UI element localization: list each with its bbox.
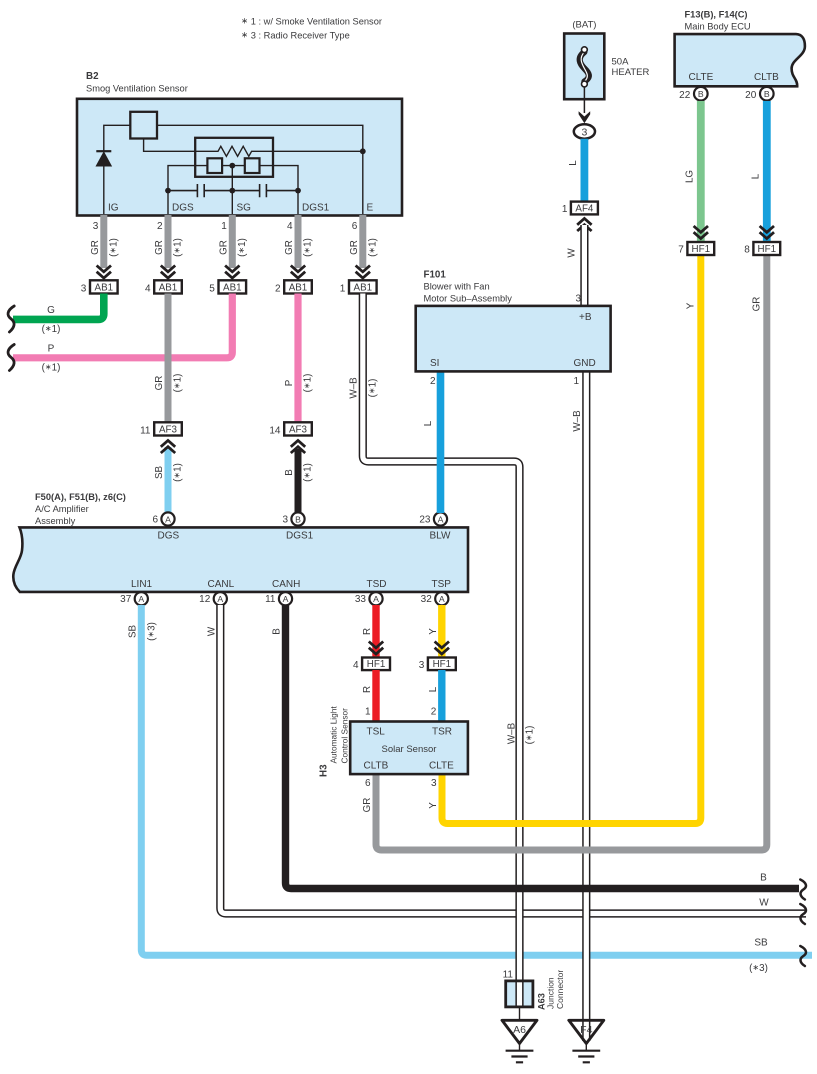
svg-text:11: 11 [140, 425, 151, 436]
svg-text:DGS: DGS [172, 203, 194, 214]
svg-text:GR: GR [154, 376, 165, 391]
svg-text:GR: GR [349, 240, 360, 255]
arrow into 3 HF1 [435, 642, 449, 648]
wire GR pin 4 of B2 [295, 215, 302, 268]
wire P from connector 2 AB1 to 14 AF3 [294, 294, 301, 424]
svg-text:1: 1 [573, 376, 579, 387]
arrow into AB1 [291, 266, 305, 272]
svg-text:Y: Y [685, 302, 696, 309]
svg-text:23: 23 [419, 515, 431, 526]
pin 3 B of A/C amplifier [291, 512, 304, 525]
pin 12 A of A/C amplifier [214, 592, 227, 605]
svg-text:SB: SB [127, 625, 138, 639]
svg-text:Y: Y [428, 628, 439, 635]
wire SB from pin 37 LIN1 to right edge [141, 605, 812, 955]
svg-text:G: G [47, 305, 55, 316]
connector 2 AB1 [284, 280, 312, 293]
svg-text:HF1: HF1 [433, 659, 452, 670]
svg-text:AB1: AB1 [354, 283, 373, 294]
node SG junction [229, 188, 235, 194]
svg-text:6: 6 [352, 221, 358, 232]
svg-text:AF3: AF3 [159, 425, 178, 436]
connector 1 AF4 [571, 202, 598, 215]
svg-text:E: E [367, 203, 374, 214]
svg-text:AF3: AF3 [289, 425, 308, 436]
svg-text:1: 1 [221, 221, 227, 232]
svg-text:3: 3 [419, 660, 425, 671]
svg-text:GR: GR [218, 240, 229, 255]
wire P pink to left [13, 294, 232, 358]
svg-text:DGS: DGS [158, 531, 180, 542]
arrow into 8 HF1 [760, 226, 774, 232]
wire R from 4 HF1 to solar sensor pin 1 TSL [372, 670, 379, 721]
svg-text:B: B [284, 469, 295, 476]
svg-text:32: 32 [421, 594, 433, 605]
svg-text:CLTE: CLTE [429, 760, 454, 771]
svg-text:37: 37 [120, 594, 132, 605]
fuse 50A HEATER symbol [580, 52, 589, 82]
arrow into 4 HF1 [369, 642, 383, 648]
svg-text:3: 3 [93, 221, 99, 232]
continuation squiggle SB [800, 946, 806, 966]
svg-text:6: 6 [152, 515, 158, 526]
svg-text:AB1: AB1 [223, 283, 242, 294]
svg-text:(∗1): (∗1) [525, 726, 536, 745]
svg-text:+B: +B [579, 312, 592, 323]
svg-text:TSR: TSR [432, 727, 452, 738]
pin 33 A of A/C amplifier [369, 592, 382, 605]
svg-text:11: 11 [265, 594, 276, 605]
svg-text:CLTB: CLTB [754, 72, 779, 83]
wire from A63 to ground A6 [519, 1007, 521, 1021]
connector 3 AB1 [90, 280, 118, 293]
pin 11 A of A/C amplifier [279, 592, 292, 605]
connector 3 HF1 [428, 658, 456, 671]
component B2 internal square U [130, 112, 157, 139]
wire W from pin 12 CANL to right edge [220, 605, 806, 914]
svg-text:H3: H3 [319, 764, 330, 777]
svg-text:GND: GND [574, 358, 596, 369]
svg-text:B: B [272, 628, 283, 635]
wire W-B from F101 GND to ground F4 [582, 372, 590, 1042]
component A/C amplifier box [13, 527, 468, 592]
component Main Body ECU box [675, 34, 805, 86]
svg-text:(∗1): (∗1) [303, 374, 314, 393]
pin 37 A of A/C amplifier [135, 592, 148, 605]
svg-text:BLW: BLW [430, 531, 451, 542]
svg-text:F13(B), F14(C): F13(B), F14(C) [685, 10, 748, 20]
svg-text:HF1: HF1 [758, 244, 777, 255]
svg-text:12: 12 [199, 594, 211, 605]
svg-text:A: A [165, 514, 171, 524]
svg-text:Y: Y [428, 802, 439, 809]
pin 20 B of Main Body ECU [760, 87, 774, 101]
svg-text:SG: SG [237, 203, 252, 214]
node 3 circle [574, 124, 595, 138]
wire from fuse to node 3 [583, 87, 585, 113]
svg-text:4: 4 [145, 283, 151, 294]
pin 6 A of A/C amplifier [161, 512, 174, 525]
svg-text:IG: IG [108, 203, 119, 214]
svg-text:2: 2 [431, 707, 437, 718]
svg-text:W: W [759, 898, 769, 909]
connector 5 AB1 [219, 280, 247, 293]
connector 1 AB1 [349, 280, 377, 293]
wire B from pin 11 CANH to right edge [286, 605, 800, 889]
svg-text:CLTE: CLTE [689, 72, 714, 83]
svg-text:B: B [760, 873, 767, 884]
svg-text:P: P [284, 379, 295, 386]
svg-text:TSD: TSD [367, 579, 387, 590]
svg-text:1: 1 [562, 204, 568, 215]
connector 14 AF3 [284, 422, 312, 435]
svg-text:7: 7 [678, 245, 684, 256]
svg-text:2: 2 [157, 221, 163, 232]
svg-text:DGS1: DGS1 [286, 531, 314, 542]
node SG junction upper [229, 163, 235, 169]
svg-text:B2: B2 [86, 71, 99, 82]
continuation squiggle P [8, 345, 14, 371]
capacitor C2 [260, 184, 298, 197]
connector 4 HF1 [362, 658, 390, 671]
wire L from CLTB to 8 HF1 [763, 101, 771, 243]
svg-text:Blower with Fan: Blower with Fan [424, 282, 490, 292]
svg-text:33: 33 [355, 594, 367, 605]
svg-text:DGS1: DGS1 [302, 203, 330, 214]
svg-text:(∗1): (∗1) [42, 324, 61, 335]
continuation squiggle G [8, 306, 14, 332]
wire GR from connector 4 AB1 to 11 AF3 [165, 294, 172, 424]
arrow out of 11 AF3 [161, 447, 175, 453]
continuation squiggle B [800, 880, 806, 900]
svg-text:1: 1 [340, 283, 346, 294]
svg-text:∗ 3 : Radio Receiver Type: ∗ 3 : Radio Receiver Type [241, 30, 350, 41]
svg-text:A: A [138, 594, 144, 604]
svg-text:(∗1): (∗1) [367, 379, 378, 398]
svg-text:TSL: TSL [367, 727, 386, 738]
svg-text:TSP: TSP [432, 579, 452, 590]
svg-text:8: 8 [744, 245, 750, 256]
component B2 box [77, 99, 402, 216]
svg-text:A: A [373, 594, 379, 604]
svg-text:AB1: AB1 [159, 283, 178, 294]
arrow into AB1 [225, 266, 239, 272]
svg-text:F4: F4 [580, 1024, 592, 1036]
svg-text:50A: 50A [612, 57, 630, 68]
svg-text:GR: GR [751, 297, 762, 312]
node DGS1 junction [295, 188, 301, 194]
connector 11 AF3 [154, 422, 182, 435]
wire L from F101 SI to A/C amplifier pin 23 [437, 372, 445, 514]
svg-text:Junction: Junction [546, 977, 556, 1009]
component sensing element box [195, 138, 273, 177]
svg-text:P: P [48, 344, 55, 355]
connector 4 AB1 [154, 280, 182, 293]
svg-text:(∗1): (∗1) [237, 238, 248, 257]
svg-text:3: 3 [431, 778, 437, 789]
svg-text:A: A [283, 594, 289, 604]
ground F4 [569, 1020, 604, 1043]
svg-text:CANL: CANL [208, 579, 235, 590]
arrow into AB1 [97, 266, 111, 272]
arrow into AB1 [356, 266, 370, 272]
svg-text:(∗1): (∗1) [173, 374, 184, 393]
svg-text:R: R [362, 686, 373, 693]
wire L from node 3 to 1 AF4 [581, 139, 589, 202]
wire R from pin 33 TSD to 4 HF1 [372, 605, 379, 658]
svg-text:(∗1): (∗1) [367, 238, 378, 257]
svg-text:CLTB: CLTB [364, 760, 389, 771]
svg-text:A: A [438, 514, 444, 524]
node E junction [360, 148, 366, 154]
svg-text:SB: SB [154, 466, 165, 480]
svg-text:Connector: Connector [555, 970, 565, 1009]
svg-text:(∗1): (∗1) [173, 238, 184, 257]
svg-text:AB1: AB1 [289, 283, 308, 294]
svg-text:(∗1): (∗1) [303, 238, 314, 257]
wire W-B from connector 1 AB1 to junction connector A63 [363, 294, 520, 983]
svg-text:(∗1): (∗1) [42, 363, 61, 374]
wire B2 top rail [104, 125, 131, 151]
arrow out of 1 AF4 [577, 225, 591, 231]
svg-text:L: L [423, 420, 434, 426]
svg-text:L: L [428, 686, 439, 692]
svg-text:A: A [439, 594, 445, 604]
wire G green to left [13, 294, 104, 320]
component strain gauge SQ1 [207, 158, 222, 173]
svg-text:W: W [566, 248, 577, 258]
svg-text:Solar Sensor: Solar Sensor [382, 744, 437, 755]
pin 22 B of Main Body ECU [694, 87, 708, 101]
svg-text:2: 2 [275, 283, 281, 294]
svg-text:22: 22 [679, 90, 691, 101]
svg-text:6: 6 [365, 778, 371, 789]
pin 23 A of A/C amplifier [434, 512, 447, 525]
wire GR pin 1 of B2 [229, 215, 236, 268]
capacitor C1 [168, 184, 260, 197]
svg-text:LIN1: LIN1 [131, 579, 153, 590]
wire SB from 11 AF3 to A/C amplifier pin 6 [165, 447, 172, 513]
wire gauge row [168, 166, 207, 191]
svg-text:AB1: AB1 [95, 283, 114, 294]
svg-text:20: 20 [745, 90, 757, 101]
svg-text:GR: GR [154, 240, 165, 255]
component strain gauge SQ2 [245, 158, 260, 173]
diode D1 [103, 166, 105, 214]
svg-text:(∗1): (∗1) [108, 238, 119, 257]
svg-text:W–B: W–B [572, 410, 583, 432]
continuation squiggle W [800, 904, 806, 924]
svg-text:2: 2 [430, 376, 436, 387]
arrow into node 3 [579, 111, 591, 123]
svg-text:GR: GR [284, 240, 295, 255]
svg-text:14: 14 [269, 425, 281, 436]
svg-text:3: 3 [575, 294, 581, 305]
svg-text:L: L [750, 173, 761, 179]
svg-text:F50(A), F51(B), z6(C): F50(A), F51(B), z6(C) [35, 492, 126, 502]
svg-text:Assembly: Assembly [35, 516, 76, 526]
svg-text:W–B: W–B [348, 377, 359, 399]
svg-text:(∗1): (∗1) [173, 463, 184, 482]
svg-text:B: B [698, 89, 704, 99]
wire W from 1 AF4 to F101 +B [580, 225, 588, 307]
connector A63 junction connector [506, 981, 533, 1007]
svg-text:GR: GR [90, 240, 101, 255]
arrow into AB1 [161, 266, 175, 272]
svg-text:R: R [362, 628, 373, 635]
svg-text:1: 1 [365, 707, 371, 718]
svg-text:W: W [206, 626, 217, 636]
wire Y from solar sensor CLTE to 7 HF1 [442, 256, 701, 824]
wire B2 resistor rail [144, 139, 197, 152]
svg-text:(BAT): (BAT) [572, 20, 596, 31]
component F101 box [416, 306, 611, 372]
wire GR from solar sensor CLTB to 8 HF1 [376, 256, 767, 851]
ground A6 [502, 1020, 537, 1043]
connector 7 HF1 [687, 242, 714, 255]
svg-text:4: 4 [287, 221, 293, 232]
svg-text:W–B: W–B [507, 722, 518, 744]
svg-text:A: A [217, 594, 223, 604]
svg-text:HEATER: HEATER [612, 67, 650, 78]
svg-text:11: 11 [503, 970, 514, 981]
component battery box [564, 34, 604, 100]
wire Y from pin 32 TSP to 3 HF1 [438, 605, 445, 658]
svg-text:Main Body ECU: Main Body ECU [685, 22, 751, 32]
svg-text:3: 3 [81, 283, 87, 294]
svg-text:CANH: CANH [272, 579, 300, 590]
svg-text:Smog Ventilation Sensor: Smog Ventilation Sensor [86, 84, 188, 94]
svg-text:HF1: HF1 [367, 659, 386, 670]
svg-text:Control Sensor: Control Sensor [340, 708, 350, 764]
arrow out of 14 AF3 [291, 447, 305, 453]
svg-text:A6: A6 [513, 1024, 526, 1036]
component H3 solar sensor box [350, 722, 468, 775]
svg-text:3: 3 [282, 515, 288, 526]
svg-text:(∗1): (∗1) [303, 463, 314, 482]
svg-text:A/C Amplifier: A/C Amplifier [35, 504, 89, 514]
svg-text:5: 5 [209, 283, 215, 294]
svg-text:B: B [295, 514, 301, 524]
arrow into 7 HF1 [694, 226, 708, 232]
svg-text:3: 3 [581, 126, 587, 138]
wire L from 3 HF1 to solar sensor pin 2 TSR [438, 670, 445, 721]
svg-text:∗ 1 : w/ Smoke Ventilation Sen: ∗ 1 : w/ Smoke Ventilation Sensor [241, 16, 382, 27]
wire GR pin 3 of B2 [100, 215, 107, 268]
svg-text:F101: F101 [424, 270, 447, 281]
wire B from 14 AF3 to A/C amplifier pin 3 [295, 449, 302, 513]
svg-text:Automatic Light: Automatic Light [329, 706, 339, 764]
svg-text:4: 4 [353, 660, 359, 671]
connector 8 HF1 [753, 242, 780, 255]
svg-text:(∗3): (∗3) [146, 622, 157, 641]
resistor R1 zigzag [197, 146, 272, 156]
svg-text:SB: SB [754, 938, 768, 949]
svg-text:AF4: AF4 [575, 204, 594, 215]
wire LG from CLTE to 7 HF1 [697, 101, 705, 243]
svg-text:LG: LG [684, 170, 695, 183]
wire GR pin 6 of B2 [359, 215, 366, 268]
node DGS junction [165, 188, 171, 194]
svg-text:L: L [568, 160, 579, 166]
svg-text:Motor Sub–Assembly: Motor Sub–Assembly [424, 294, 513, 304]
svg-text:GR: GR [362, 798, 373, 813]
svg-text:B: B [764, 89, 770, 99]
svg-text:HF1: HF1 [692, 244, 711, 255]
wire GR pin 2 of B2 [165, 215, 172, 268]
svg-text:(∗3): (∗3) [749, 963, 768, 974]
pin 32 A of A/C amplifier [435, 592, 448, 605]
svg-text:SI: SI [430, 358, 439, 369]
